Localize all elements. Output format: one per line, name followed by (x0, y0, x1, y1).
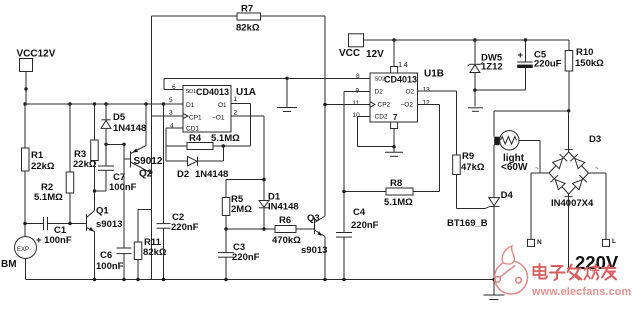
svg-text:O1: O1 (218, 102, 227, 109)
svg-text:C4: C4 (353, 207, 366, 218)
resistor R11 82k (134, 210, 167, 280)
wire main VCC bus (23, 102, 183, 105)
terminal L (589, 173, 617, 246)
diode bridge TR (575, 159, 585, 169)
lamp light <60W (494, 131, 540, 173)
resistor R6 470k (272, 215, 315, 246)
pin 14 supply (391, 40, 410, 73)
svg-text:s9013: s9013 (301, 245, 327, 256)
svg-text:220nF: 220nF (351, 220, 379, 231)
microphone BM (1, 224, 37, 280)
svg-text:IN4007X4: IN4007X4 (551, 198, 594, 209)
svg-text:s9013: s9013 (96, 219, 122, 230)
svg-text:5: 5 (169, 97, 173, 104)
ground (zener/C5) (468, 108, 483, 112)
svg-text:www.elecfans.com: www.elecfans.com (531, 286, 631, 298)
svg-text:13: 13 (423, 87, 431, 94)
capacitor C2 220nF (157, 104, 199, 280)
svg-text:CP2: CP2 (378, 102, 391, 109)
svg-text:BM: BM (1, 259, 17, 270)
wire CP2 / Q3 collector net (323, 103, 370, 106)
svg-text:1: 1 (234, 96, 238, 103)
wire pin9 D2 net (342, 92, 370, 194)
svg-text:R1: R1 (31, 150, 44, 161)
svg-text:1N4148: 1N4148 (113, 123, 146, 134)
svg-text:CD4013: CD4013 (384, 75, 417, 85)
diode D1 1N4148 (259, 192, 299, 230)
svg-text:S9012: S9012 (134, 156, 163, 167)
diode bridge BR (572, 180, 582, 190)
svg-text:R10: R10 (576, 47, 593, 58)
wire bottom ground bus (26, 278, 495, 281)
svg-text:+: + (518, 50, 524, 61)
SCR D4 BT169_B (447, 145, 513, 279)
resistor R8 5.1M (344, 178, 440, 208)
svg-text:6: 6 (172, 84, 176, 91)
wire SD1/SD2 ground net (164, 77, 370, 90)
svg-text:1Z12: 1Z12 (481, 62, 503, 73)
svg-text:Q1: Q1 (96, 206, 109, 217)
capacitor C7 100nF (95, 144, 137, 193)
watermark text 电子发烧友 (drawn glyphs) (534, 264, 617, 280)
zener DW5 1Z12 (468, 40, 503, 107)
svg-text:Q2: Q2 (139, 169, 153, 180)
svg-text:U1B: U1B (424, 69, 444, 80)
op-amp U1B CD4013 box (353, 69, 445, 123)
svg-text:EXP: EXP (17, 247, 29, 253)
svg-text:12: 12 (423, 100, 431, 107)
wire pin13 to R9 (418, 91, 457, 155)
svg-text:5.1MΩ: 5.1MΩ (211, 133, 240, 144)
svg-text:R4: R4 (189, 133, 202, 144)
wire CD2 loop (357, 117, 394, 147)
svg-text:BT169_B: BT169_B (447, 218, 488, 229)
svg-text:R6: R6 (279, 215, 291, 226)
op-amp U1A CD4013 box (169, 84, 256, 133)
transistor Q2 S9012 (106, 104, 163, 180)
svg-text:CD2: CD2 (375, 114, 388, 121)
svg-text:R8: R8 (390, 178, 402, 189)
svg-text:10: 10 (353, 112, 361, 119)
svg-text:470kΩ: 470kΩ (272, 235, 301, 246)
svg-text:D1: D1 (186, 102, 195, 109)
wire lamp to bridge AC left (531, 140, 549, 173)
diode D5 1N4148 (101, 104, 146, 146)
transistor Q1 s9013 (87, 206, 123, 280)
svg-text:47kΩ: 47kΩ (461, 162, 485, 173)
diode bridge TL (553, 159, 563, 169)
bridge rectifier D3 IN4007X4 (535, 110, 601, 268)
svg-text:VCC: VCC (339, 48, 360, 59)
svg-text:+ 100nF: + 100nF (36, 235, 72, 246)
svg-text:2MΩ: 2MΩ (231, 204, 252, 215)
wire U1A pin1 to R4 (213, 104, 251, 148)
svg-text:CD4013: CD4013 (196, 87, 229, 97)
svg-text:D2: D2 (177, 169, 189, 180)
svg-text:VCC12V: VCC12V (17, 49, 56, 60)
svg-text:Q3: Q3 (307, 213, 320, 224)
svg-text:C6: C6 (100, 250, 112, 261)
svg-text:D4: D4 (501, 190, 514, 201)
svg-text:CP1: CP1 (189, 115, 202, 122)
svg-text:~: ~ (595, 165, 599, 172)
svg-text:14: 14 (398, 60, 409, 69)
diode D2 1N4148 (166, 146, 228, 180)
svg-text:220nF: 220nF (171, 222, 199, 233)
watermark logo elecfans (495, 246, 528, 294)
svg-text:~O1: ~O1 (212, 115, 225, 122)
svg-text:~: ~ (535, 165, 539, 172)
wire R5/D1/C3/R6 node (224, 227, 275, 230)
svg-text:O2: O2 (406, 89, 415, 96)
svg-text:220uF: 220uF (534, 59, 562, 70)
resistor R9 47k (453, 151, 485, 209)
capacitor C1 100nF (23, 217, 86, 246)
svg-text:5.1MΩ: 5.1MΩ (34, 192, 63, 203)
svg-text:3: 3 (169, 110, 173, 117)
svg-text:R7: R7 (241, 4, 253, 15)
resistor R7 82k feedback (152, 4, 326, 217)
svg-text:D5: D5 (113, 112, 126, 123)
wire U1A pin2 to D1/R5 (226, 116, 266, 201)
node VCC 12V (339, 34, 384, 60)
svg-text:22kΩ: 22kΩ (73, 159, 97, 170)
svg-text:22kΩ: 22kΩ (31, 161, 55, 172)
svg-text:12V: 12V (366, 49, 384, 60)
pin 7 / ground (385, 122, 403, 156)
ground (SD net) (277, 78, 297, 111)
svg-text:D2: D2 (375, 89, 384, 96)
capacitor C3 220nF (218, 229, 260, 280)
svg-text:CD1: CD1 (186, 126, 199, 133)
svg-text:150kΩ: 150kΩ (575, 58, 604, 69)
transistor Q3 s9013 (301, 213, 327, 280)
svg-text:100nF: 100nF (96, 261, 124, 272)
svg-text:SD1: SD1 (186, 89, 197, 95)
resistor R2 5.1M (34, 104, 74, 224)
capacitor C6 100nF (96, 159, 132, 279)
svg-text:1N4148: 1N4148 (195, 169, 228, 180)
svg-text:82kΩ: 82kΩ (236, 23, 260, 34)
svg-text:220nF: 220nF (232, 252, 260, 263)
terminal N (528, 173, 543, 246)
svg-text:100nF: 100nF (109, 182, 137, 193)
resistor R10 150k (565, 40, 604, 113)
resistor R1 22k (22, 104, 55, 224)
wire VCC drop (24, 72, 27, 105)
capacitor C4 220nF (336, 92, 379, 280)
wire pin12 to R8 (418, 105, 440, 192)
node 220V mains label (575, 252, 619, 273)
svg-text:R9: R9 (462, 151, 474, 162)
wire R10 node to lamp (494, 111, 569, 137)
wire CP1 / Q2 collector net (149, 16, 183, 279)
wire U1A pin4 CD1 (166, 128, 183, 161)
svg-text:2: 2 (234, 110, 238, 117)
svg-text:<60W: <60W (501, 162, 528, 173)
ground (SCR cathode) (484, 278, 505, 300)
svg-text:8: 8 (356, 73, 360, 80)
wire top supply bus (364, 38, 570, 41)
resistor R3 22k (73, 104, 98, 211)
resistor R5 2M (222, 180, 252, 229)
svg-text:~O2: ~O2 (401, 102, 414, 109)
diode bridge BL (555, 180, 565, 190)
svg-text:U1A: U1A (236, 87, 256, 98)
node VCC12V (17, 49, 56, 72)
resistor R4 5.1M (166, 133, 240, 150)
svg-text:L: L (612, 238, 616, 245)
svg-text:11: 11 (353, 100, 360, 107)
svg-text:5.1MΩ: 5.1MΩ (384, 197, 413, 208)
svg-text:D3: D3 (589, 134, 601, 145)
svg-text:7: 7 (393, 113, 398, 122)
svg-text:N: N (537, 239, 542, 246)
svg-text:IN4148: IN4148 (268, 202, 299, 213)
capacitor C5 220uF (475, 40, 562, 90)
